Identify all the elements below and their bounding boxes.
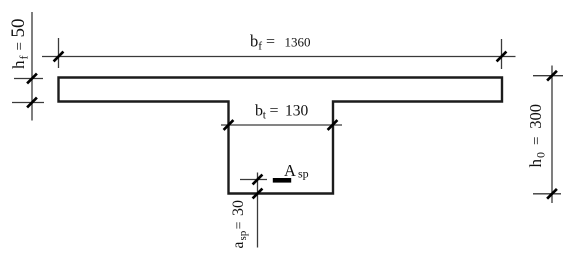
svg-text:30: 30 (230, 200, 247, 216)
svg-text:h: h (9, 60, 28, 69)
svg-text:=: = (270, 103, 279, 120)
svg-text:sp: sp (237, 230, 249, 240)
svg-text:f: f (17, 56, 31, 60)
svg-text:a: a (230, 242, 247, 249)
svg-text:sp: sp (298, 167, 309, 181)
svg-text:h: h (526, 159, 545, 168)
svg-text:1360: 1360 (285, 35, 311, 50)
svg-text:0: 0 (534, 152, 548, 158)
svg-text:=: = (12, 42, 28, 50)
svg-text:b: b (250, 32, 258, 51)
svg-text:=: = (231, 222, 246, 230)
svg-text:300: 300 (526, 104, 545, 129)
svg-text:=: = (266, 34, 275, 51)
svg-text:f: f (258, 41, 262, 53)
svg-text:A: A (284, 161, 296, 180)
svg-text:50: 50 (8, 19, 29, 38)
svg-text:=: = (529, 137, 545, 145)
svg-text:130: 130 (285, 103, 309, 120)
